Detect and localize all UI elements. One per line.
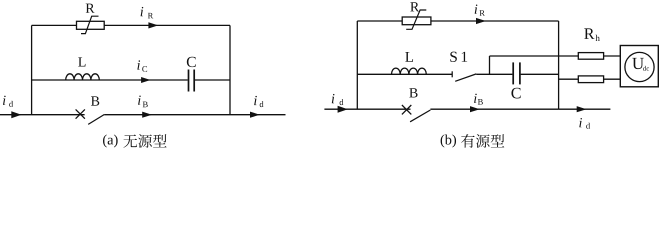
switch S1 (circuit b): fixed contact tick <box>451 71 453 77</box>
label C (circuit a) <box>187 57 196 67</box>
wire: circuit (b) lower Rh to Udc <box>604 78 621 80</box>
wire: circuit (a) bottom output segment <box>230 114 286 116</box>
inductor L (circuit b) <box>392 68 427 74</box>
label id output (circuit b) <box>579 118 582 127</box>
caption (b) you-yuan-xing (active type) <box>441 134 505 148</box>
wire: circuit (b) middle branch, capacitor to rail <box>521 73 559 75</box>
label iB (circuit a) <box>138 96 141 105</box>
wire: circuit (b) middle branch, blade to capacitor <box>476 73 512 75</box>
switch B (bypass breaker, circuit a): cross mark <box>76 109 85 118</box>
wire: circuit (a) top branch <box>32 24 230 26</box>
switch B (circuit b): cross mark <box>402 105 411 114</box>
wire: circuit (b) left rail <box>356 21 358 109</box>
label L (circuit b) <box>405 52 413 62</box>
wire: circuit (a) right rail <box>229 25 231 114</box>
label iR (circuit b) <box>475 5 478 14</box>
label id input (circuit a) <box>3 96 6 105</box>
wire: circuit (b) upper bypass branch to Rh <box>490 55 579 57</box>
resistor Rh lower (circuit b) <box>578 76 603 83</box>
current arrow id output (circuit b) <box>577 106 587 112</box>
current arrow iR (circuit b) <box>476 18 486 24</box>
wire: circuit (b) bottom branch input segment <box>324 108 410 110</box>
label id input (circuit b) <box>332 94 335 103</box>
wire: circuit (b) middle branch, rail to S1 contact <box>357 73 452 75</box>
wire: circuit (b) right rail <box>558 21 560 109</box>
wire: circuit (b) junction riser at node after S1 <box>489 56 491 74</box>
label B (circuit a) <box>91 96 99 105</box>
label iC (circuit a) <box>137 60 140 69</box>
label R (circuit b) <box>410 2 419 11</box>
capacitor C (circuit a) <box>189 70 195 92</box>
label Rh (circuit b) <box>584 28 594 38</box>
switch S1 (circuit b): open blade <box>455 74 476 81</box>
capacitor C (circuit b) <box>513 62 520 84</box>
wire: circuit (a) bottom branch right segment <box>104 114 230 116</box>
switch B (circuit a): open blade <box>88 115 104 125</box>
resistor R (nonlinear energy-absorbing resistor, circuit b) <box>402 10 431 29</box>
label L (circuit a) <box>78 57 85 66</box>
current arrow iC (circuit a) <box>141 77 150 83</box>
caption (a) wu-yuan-xing (passive type) <box>103 134 167 148</box>
label C (circuit b) <box>511 88 520 99</box>
label id output (circuit a) <box>254 96 257 105</box>
switch B (circuit b): open blade <box>410 110 430 122</box>
wire: circuit (b) bottom branch right segment <box>430 108 558 110</box>
wire: circuit (b) bottom output segment <box>559 108 611 110</box>
wire: circuit (a) middle branch right segment <box>195 79 230 81</box>
current arrow id input (circuit a) <box>11 111 21 118</box>
wire: circuit (a) middle branch left segment <box>32 79 188 81</box>
wire: circuit (a) left rail <box>31 25 33 114</box>
label iR (circuit a) <box>141 7 144 16</box>
wire: circuit (b) top branch <box>357 20 558 22</box>
current arrow iR (circuit a) <box>148 22 158 28</box>
DC source Udc (circuit b): outer box <box>620 46 658 87</box>
current arrow id output (circuit a) <box>250 112 260 118</box>
resistor R (nonlinear energy-absorbing resistor, circuit a) <box>77 16 105 33</box>
wire: circuit (b) lower branch rail to Rh <box>559 78 579 80</box>
wire: circuit (b) upper Rh to Udc <box>604 55 621 57</box>
resistor Rh upper (circuit b) <box>578 53 603 60</box>
label B (circuit b) <box>409 88 417 97</box>
label iB (circuit b) <box>474 94 477 103</box>
current arrow id input (circuit b) <box>338 106 348 113</box>
label S1 (circuit b) <box>450 52 467 62</box>
inductor L (circuit a) <box>66 74 100 80</box>
DC source Udc (circuit b): circle <box>625 52 654 81</box>
current arrow iB (circuit b) <box>470 106 480 112</box>
wire: circuit (a) bottom branch input segment <box>0 114 85 116</box>
label R (circuit a) <box>86 4 95 13</box>
current arrow iB (circuit a) <box>142 112 152 118</box>
label Udc (circuit b) <box>632 58 644 69</box>
